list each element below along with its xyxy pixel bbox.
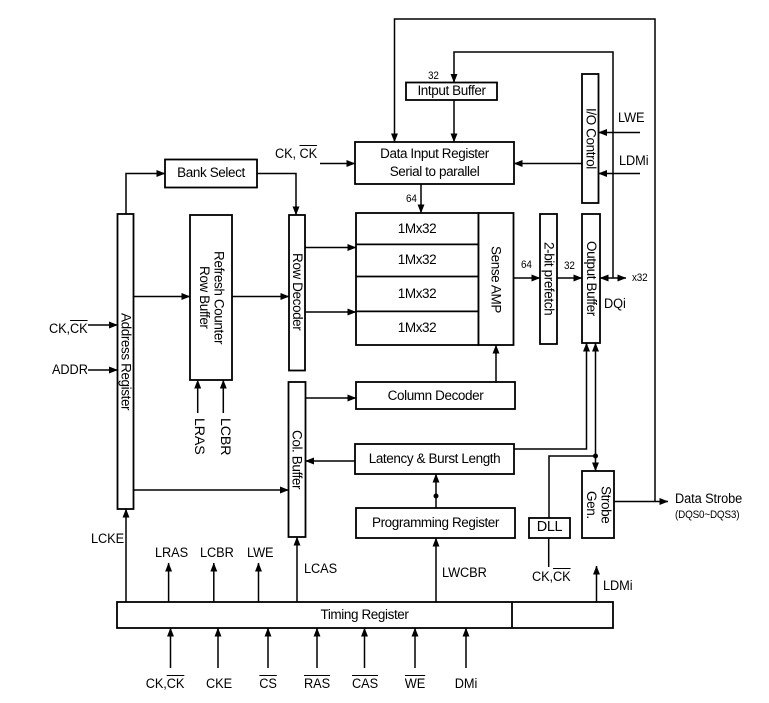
text: 1Mx32 row 4 bbox=[356, 311, 478, 345]
wire: Output Buffer to DQ pad x32 bidirectional bbox=[600, 277, 626, 279]
wire: DLL bottom CK,CK stub bbox=[548, 538, 550, 567]
text: 1Mx32 row 3 bbox=[356, 277, 478, 311]
wire: Latency &amp; Burst Length to Col Buffer right bbox=[306, 460, 356, 462]
label: DMi bottom input bbox=[455, 677, 477, 693]
wire: LCBR stub up from Timing Register bbox=[213, 563, 215, 602]
text: Output Buffer bbox=[582, 214, 600, 343]
label: CK,CK bottom input bbox=[146, 677, 185, 693]
wire: CKE input arrow into Timing Register bottom bbox=[217, 628, 219, 668]
wire: Latency &amp; Burst Length right up into Output Buffer bottom bbox=[514, 343, 587, 449]
block U11: 2-bit prefetch bbox=[540, 214, 557, 344]
text: Col. Buffer bbox=[288, 382, 305, 537]
wire: LCBR into Refresh Counter bottom bbox=[222, 380, 224, 413]
wire: Row Decoder to array row 1/2 bbox=[305, 247, 356, 249]
wire: CK,CK input to Address Register left bbox=[88, 324, 118, 326]
block U2: Bank Select bbox=[165, 160, 257, 188]
wire: LRAS stub up from Timing Register bbox=[168, 563, 170, 602]
label: Data Strobe bbox=[675, 492, 742, 508]
label: LCBR above Timing Register bbox=[200, 546, 234, 562]
block U7: Data Input Register / Serial to parallel bbox=[355, 142, 514, 184]
wire: I/O Control left to Data Input Register right bbox=[514, 163, 582, 165]
label: LRAS rotated under Refresh Counter bbox=[190, 418, 206, 455]
wire: Bank Select right to Row Decoder top bbox=[257, 174, 296, 216]
block U16: DLL bbox=[529, 518, 570, 538]
label: ADDR bbox=[52, 363, 88, 379]
wire: CAS input arrow into Timing Register bottom bbox=[364, 628, 366, 668]
wire: CK,CK input arrow into Timing Register bottom bbox=[170, 628, 172, 668]
label: 64 below Data Input Register bbox=[406, 193, 417, 205]
label: RAS bottom input bbox=[304, 677, 330, 693]
label: DQi bbox=[604, 297, 626, 313]
text: Data Input Register / Serial to parallel bbox=[355, 142, 514, 184]
wire: LWE stub up from Timing Register bbox=[258, 563, 260, 602]
wire: DLL top to Strobe Gen feed junction bbox=[549, 456, 596, 518]
block U15: Programming Register bbox=[356, 508, 515, 538]
wire: Data Input Register bottom to memory array top bbox=[420, 184, 422, 213]
label: DQS0~DQS3 bbox=[675, 509, 739, 521]
label: LCKE bbox=[91, 532, 124, 548]
text: DLL bbox=[529, 518, 570, 538]
text: Timing Register bbox=[117, 602, 612, 628]
label: CK,CK below DLL bbox=[532, 570, 571, 586]
text: Sense AMP bbox=[478, 213, 513, 345]
wire: DMi input arrow into Timing Register bottom bbox=[465, 628, 467, 668]
text: 1Mx32 row 2 bbox=[356, 244, 478, 276]
label: x32 DQ pad bbox=[632, 272, 647, 284]
wire: Column Decoder top up into Sense AMP bottom bbox=[495, 345, 497, 382]
block U6: Intput Buffer bbox=[406, 83, 497, 101]
wire: Address Register to Refresh Counter bbox=[134, 296, 191, 298]
wire: 2-bit prefetch to Output Buffer (32) bbox=[557, 277, 582, 279]
wire: Timing Register to Address Register bottom (LCKE) bbox=[125, 509, 127, 602]
label: LWE right side bbox=[618, 111, 644, 127]
wire: ADDR input to Address Register left bbox=[88, 369, 118, 371]
label: LRAS above Timing Register bbox=[155, 546, 188, 562]
wire: Address Register to Col Buffer left bbox=[134, 489, 289, 491]
label: CS bottom input bbox=[259, 677, 277, 693]
wire: LRAS into Refresh Counter bottom bbox=[197, 380, 199, 413]
text: 1Mx32 row 1 bbox=[356, 213, 478, 244]
wire: Timing Register to Col Buffer bottom (LCAS) bbox=[296, 537, 298, 602]
junction dot: DLL feed joins Strobe Gen line bbox=[593, 454, 598, 459]
text: Row Decoder bbox=[289, 215, 305, 369]
wire: Row Decoder to array row 3/4 bbox=[305, 311, 356, 313]
text: I/O Control bbox=[582, 74, 599, 203]
label: LWCBR bbox=[442, 566, 487, 582]
label: LCBR rotated under Refresh Counter bbox=[216, 418, 232, 455]
block U14: Latency & Burst Length bbox=[355, 444, 514, 474]
block U5: Col. Buffer bbox=[289, 382, 306, 537]
wire: DQ pad net up over to Intput Buffer top bbox=[454, 52, 613, 278]
block U9: memory array 4 x 1Mx32 bbox=[356, 213, 479, 345]
wire: CK,CK input to Data Input Register left bbox=[320, 163, 355, 165]
label: LDMi above Timing Register right bbox=[603, 579, 632, 595]
text: Bank Select bbox=[165, 159, 257, 187]
text: Programming Register bbox=[356, 508, 515, 538]
label: LDMi right side bbox=[619, 154, 648, 170]
wire: WE input arrow into Timing Register bottom bbox=[414, 628, 416, 668]
wire: Sense AMP to 2-bit prefetch (64) bbox=[514, 277, 541, 279]
wire: Refresh Counter to Row Decoder bbox=[232, 296, 289, 298]
text: 2-bit prefetch bbox=[540, 214, 557, 344]
wire: Address Register top to Bank Select left bbox=[126, 174, 165, 215]
wire: CS input arrow into Timing Register bottom bbox=[267, 628, 269, 668]
label: CAS bottom input bbox=[352, 677, 378, 693]
text: Strobe Gen. bbox=[582, 471, 614, 538]
block U3: Refresh Counter / Row Buffer bbox=[190, 215, 232, 380]
wire: Programming Register top to Latency bottom bbox=[435, 474, 437, 508]
block U17: Strobe Gen. bbox=[582, 471, 614, 538]
label: 64 between Sense AMP and prefetch bbox=[521, 259, 532, 271]
block U10: Sense AMP bbox=[479, 213, 514, 345]
wire: Timing Register to Programming Register (LWCBR) bbox=[435, 538, 437, 602]
wire: LDMi input into I/O Control right bbox=[599, 173, 641, 175]
block U4: Row Decoder bbox=[289, 215, 305, 371]
wire: Intput Buffer bottom to Data Input Register top bbox=[453, 100, 455, 142]
label: CK, CK into Data Input Register bbox=[275, 147, 317, 163]
wire: LDMi stub up from Timing Register bbox=[596, 566, 598, 602]
wire: Output Buffer bottom down into Strobe Gen top bbox=[595, 343, 597, 471]
text: Latency &amp; Burst Length bbox=[355, 444, 514, 474]
text: Address Register bbox=[117, 214, 134, 509]
text: Refresh Counter / Row Buffer bbox=[190, 215, 232, 380]
text: Intput Buffer bbox=[406, 82, 497, 100]
text: Column Decoder bbox=[356, 382, 515, 409]
block U8: I/O Control bbox=[582, 74, 599, 203]
label: 32 between prefetch and Output Buffer bbox=[564, 260, 575, 272]
label: LWE above Timing Register bbox=[247, 546, 273, 562]
wire: feedback from Data Strobe net up and into Data Input Register top bbox=[395, 19, 656, 502]
junction dot: Programming Register to Latency line bbox=[434, 494, 439, 499]
label: CK,CK into Address Register bbox=[49, 322, 88, 338]
wire: LWE input into I/O Control right bbox=[599, 132, 641, 134]
label: LCAS bbox=[304, 562, 337, 578]
label: 32 above Intput Buffer bbox=[428, 70, 439, 82]
label: WE bottom input bbox=[405, 677, 425, 693]
block U13: Column Decoder bbox=[356, 382, 515, 409]
label: CKE bottom input bbox=[206, 677, 232, 693]
block U18: Timing Register bbox=[117, 602, 613, 628]
block U12: Output Buffer bbox=[582, 214, 600, 343]
wire: RAS input arrow into Timing Register bottom bbox=[316, 628, 318, 668]
wire: Strobe Gen to Data Strobe output bbox=[614, 501, 668, 503]
wire: Col Buffer to Column Decoder left bbox=[306, 397, 356, 399]
block U1: Address Register bbox=[118, 214, 134, 509]
